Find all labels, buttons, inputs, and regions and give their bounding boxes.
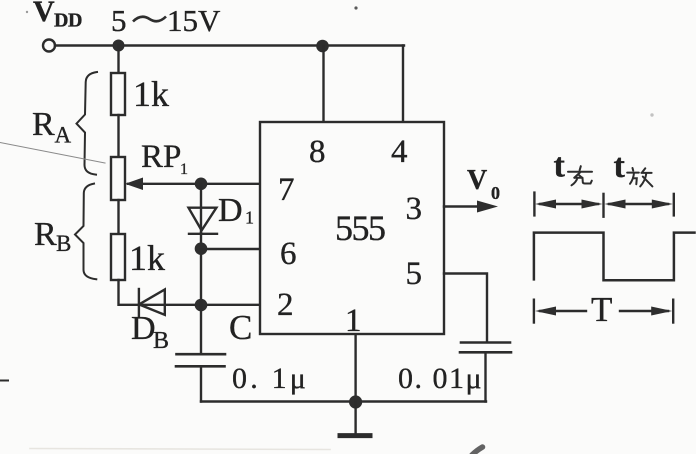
- capacitor 0.01u bottom plate: [460, 351, 511, 354]
- svg-text:1: 1: [345, 303, 362, 339]
- svg-text:R: R: [34, 216, 57, 253]
- diode DB cathode bar: [138, 289, 140, 316]
- dimension tick middle: [602, 194, 604, 217]
- node junction top of RA column: [113, 40, 125, 52]
- svg-text:V: V: [33, 0, 55, 28]
- wire capacitor C to bottom rail: [200, 366, 202, 401]
- node junction top rail to pin 8: [316, 40, 329, 53]
- brace RB: [75, 184, 96, 280]
- svg-text:B: B: [153, 328, 169, 354]
- potentiometer RP1 body: [111, 157, 125, 200]
- stray scan line left: [0, 143, 105, 164]
- svg-text:D: D: [218, 192, 243, 229]
- svg-text:0. 1μ: 0. 1μ: [232, 362, 309, 395]
- wire pin 6: [201, 248, 260, 250]
- terminal VDD input circle: [43, 40, 55, 52]
- stray pen stroke bottom right: [472, 447, 483, 454]
- brace RA: [77, 72, 98, 175]
- svg-text:15V: 15V: [167, 3, 221, 38]
- dimension arrows T: [540, 310, 586, 312]
- ground bar: [340, 433, 370, 438]
- resistor RB 1k body: [111, 234, 125, 280]
- dimension tick right: [673, 194, 675, 216]
- svg-text:1: 1: [180, 161, 188, 178]
- wire pin 8 to rail: [322, 46, 324, 122]
- wire rail corner down to pin 4: [402, 46, 404, 123]
- dimension arrows t-discharge: [609, 203, 668, 205]
- waveform square wave: [534, 233, 695, 281]
- wire pin 1 down: [354, 334, 356, 402]
- diode DB triangle: [139, 290, 165, 315]
- wire pin 2 from DB to IC: [139, 304, 260, 306]
- svg-text:D: D: [131, 310, 156, 347]
- svg-text:8: 8: [309, 134, 326, 170]
- svg-text:C: C: [229, 308, 252, 347]
- svg-text:0. 01μ: 0. 01μ: [398, 362, 483, 395]
- glyph fang (discharge) drawn as strokes: [627, 168, 652, 186]
- svg-text:4: 4: [391, 134, 408, 170]
- dimension tick right T: [672, 300, 674, 323]
- stray dash bottom left: [0, 380, 8, 382]
- node junction pin7 / D1 anode: [195, 178, 208, 191]
- wire top supply rail: [55, 44, 404, 46]
- ground stem: [354, 402, 356, 433]
- diode D1 triangle: [189, 208, 217, 231]
- node junction pin6: [195, 242, 208, 255]
- svg-text:A: A: [55, 123, 72, 148]
- wire RA to RP1: [117, 115, 119, 157]
- svg-text:555: 555: [335, 208, 385, 248]
- svg-text:1k: 1k: [133, 74, 169, 114]
- svg-text:0: 0: [491, 183, 500, 203]
- svg-text:5: 5: [406, 256, 423, 292]
- svg-text:1: 1: [245, 208, 254, 228]
- node junction pin2 / C top: [195, 299, 208, 312]
- svg-text:6: 6: [280, 236, 297, 272]
- svg-text:7: 7: [278, 172, 295, 208]
- capacitor C 0.1u bottom plate: [176, 365, 225, 368]
- wire RB bottom down to DB level: [119, 280, 140, 305]
- svg-text:2: 2: [277, 287, 294, 323]
- wire bottom ground rail: [201, 400, 486, 402]
- arrowhead output V0: [477, 201, 498, 213]
- wire D1 anode from junction: [200, 184, 202, 233]
- svg-text:RP: RP: [141, 139, 181, 175]
- svg-text:1k: 1k: [129, 238, 165, 278]
- wire RP1 to RB: [117, 200, 119, 234]
- wire pin 5 to capacitor 0.01u: [444, 274, 487, 343]
- wire junction down to capacitor C: [200, 305, 202, 354]
- svg-text:5: 5: [111, 3, 127, 38]
- IC U1 555 outline: [260, 122, 444, 334]
- wire D1 cathode to pin6 junction: [200, 233, 202, 305]
- svg-text:t: t: [554, 148, 566, 185]
- dimension tick left t-charge: [533, 193, 535, 216]
- dimension tick left T: [533, 300, 535, 323]
- svg-text:t: t: [614, 148, 626, 185]
- glyph chong (charge) drawn as strokes: [568, 166, 592, 185]
- wire RP1 wiper to pin 7: [128, 183, 260, 185]
- svg-text:V: V: [467, 165, 487, 196]
- capacitor 0.01u top plate: [461, 341, 510, 344]
- dimension arrows t-charge: [540, 203, 598, 205]
- svg-text:T: T: [591, 290, 612, 329]
- wire capacitor 0.01u to bottom rail: [484, 352, 486, 401]
- svg-text:3: 3: [406, 191, 423, 227]
- resistor RA 1k body: [111, 73, 125, 115]
- wire rail junction down to RA: [117, 46, 119, 74]
- svg-text:B: B: [56, 231, 71, 256]
- node junction ground: [349, 395, 362, 408]
- wire pin 3 output: [444, 205, 482, 207]
- diode D1 cathode bar: [189, 233, 217, 235]
- capacitor C 0.1u top plate: [177, 353, 226, 356]
- arrowhead wiper RP1: [125, 178, 143, 191]
- svg-text:R: R: [32, 106, 55, 143]
- svg-text:DD: DD: [54, 10, 82, 32]
